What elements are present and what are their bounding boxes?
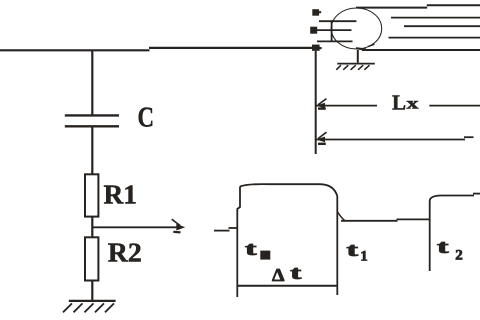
- svg-text:Δ: Δ: [272, 265, 285, 285]
- svg-text:x: x: [407, 96, 419, 113]
- svg-text:1: 1: [360, 249, 368, 265]
- svg-text:R2: R2: [108, 237, 142, 267]
- svg-text:t: t: [347, 240, 360, 261]
- svg-text:C: C: [138, 101, 155, 133]
- svg-text:2: 2: [455, 248, 463, 264]
- svg-text:L: L: [392, 90, 406, 114]
- svg-text:R1: R1: [104, 179, 138, 209]
- svg-text:t: t: [437, 237, 450, 258]
- svg-text:t: t: [290, 263, 302, 284]
- svg-text:t: t: [245, 239, 258, 260]
